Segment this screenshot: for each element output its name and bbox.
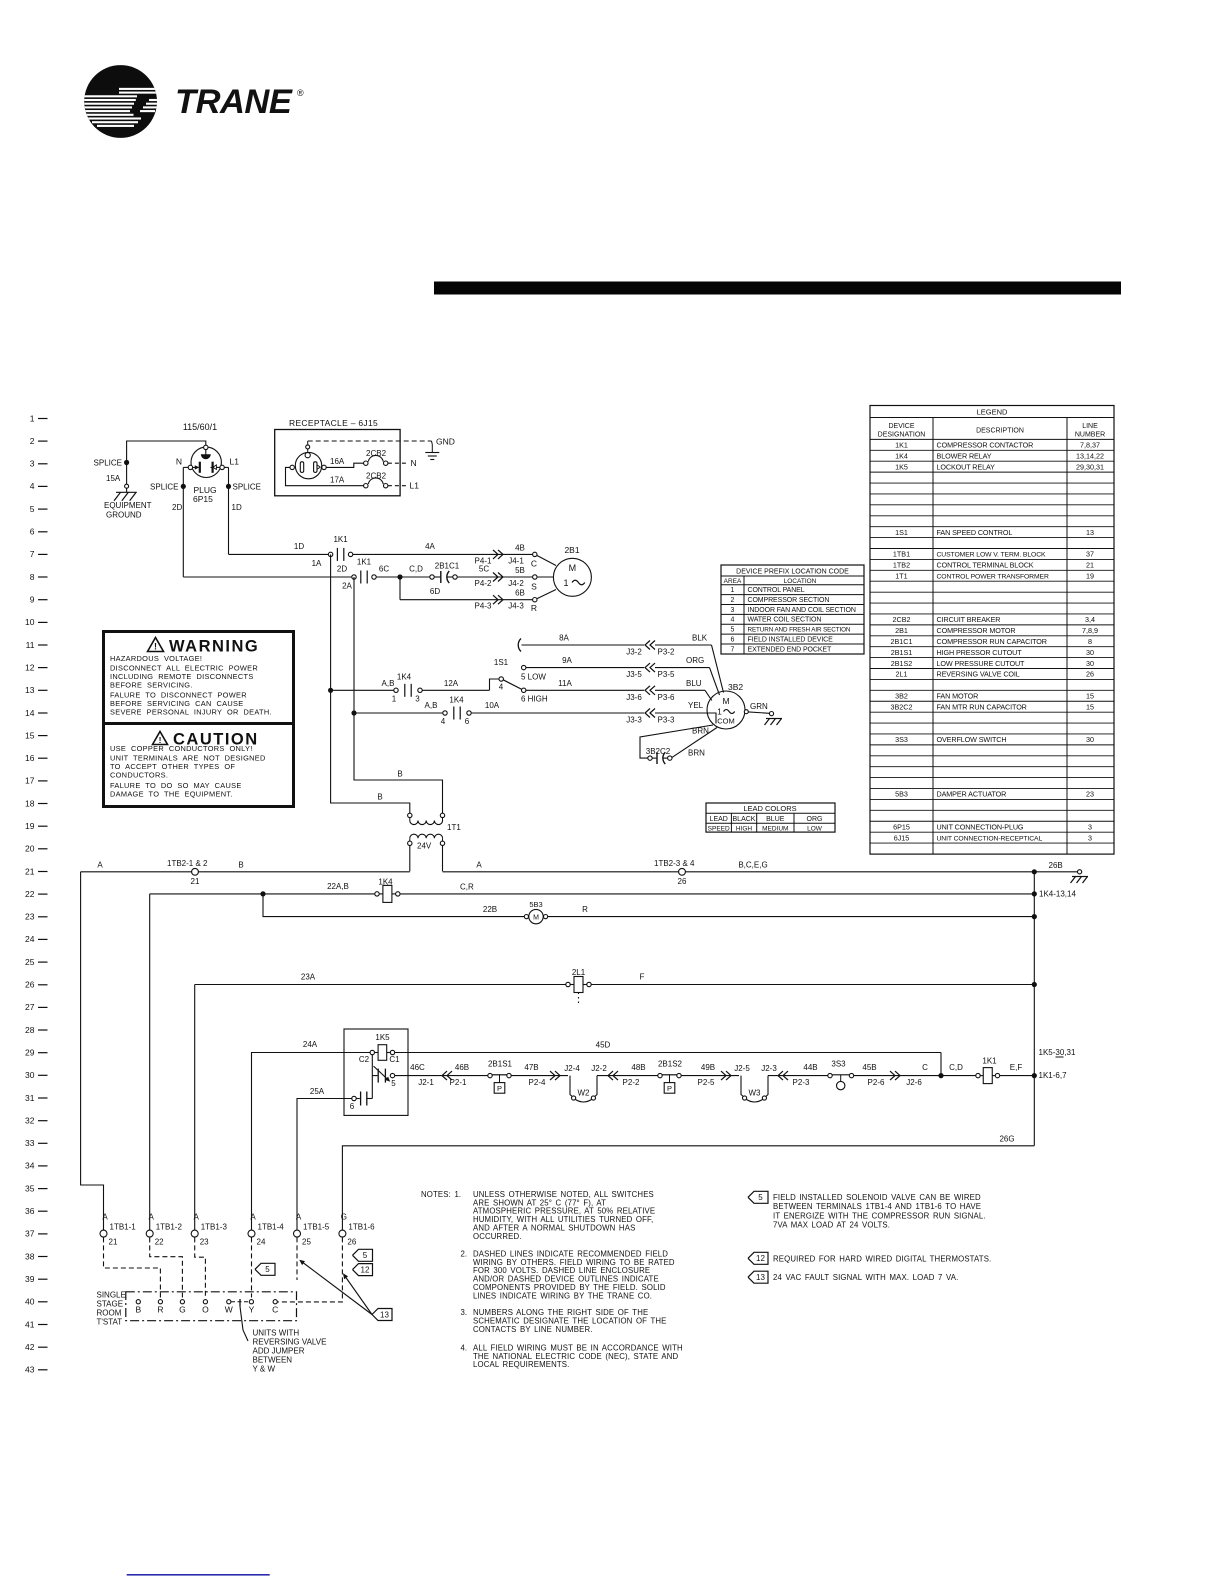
svg-text:44B: 44B: [803, 1063, 817, 1072]
svg-text:J4-1: J4-1: [508, 556, 524, 565]
dashed field wire 26 to C: [278, 1237, 343, 1302]
svg-text:COM: COM: [717, 717, 735, 726]
svg-text:REVERSING VALVE COIL: REVERSING VALVE COIL: [937, 670, 1020, 679]
svg-text:26: 26: [1086, 670, 1094, 679]
svg-text:7,8,9: 7,8,9: [1082, 626, 1098, 635]
wire J2-3 P2-3 44B: [768, 1075, 828, 1077]
thermostat terminal O: [203, 1300, 207, 1304]
relay coil 1K5 C2 C1: [370, 1050, 374, 1054]
svg-text:26: 26: [347, 1238, 356, 1247]
thermostat terminal C: [273, 1300, 277, 1304]
svg-text:SINGLE: SINGLE: [97, 1291, 126, 1300]
svg-text:45B: 45B: [862, 1063, 876, 1072]
wire 26B to chassis ground: [1032, 869, 1037, 874]
jumper W2: [570, 1076, 572, 1097]
svg-text:A,B: A,B: [382, 679, 395, 688]
svg-text:2.: 2.: [461, 1249, 468, 1258]
svg-text:22: 22: [155, 1238, 164, 1247]
svg-text:26: 26: [678, 877, 687, 886]
wire 1TB1-3 drop: [194, 985, 196, 1231]
svg-text:LOW PRESSURE CUTOUT: LOW PRESSURE CUTOUT: [937, 659, 1026, 668]
svg-text:N: N: [176, 457, 182, 467]
wire 49B P2-5 J2-5: [681, 1075, 739, 1077]
right bus vertical: [1033, 872, 1035, 1146]
dashed field wire 25 stub: [296, 1237, 298, 1280]
svg-text:21: 21: [191, 877, 200, 886]
splice L1 wire 1D: [224, 466, 228, 468]
svg-text:P3-3: P3-3: [658, 716, 675, 725]
svg-text:BETWEEN: BETWEEN: [253, 1356, 293, 1365]
svg-text:2L1: 2L1: [572, 968, 586, 977]
svg-text:19: 19: [1086, 572, 1094, 581]
svg-text:LOCATION: LOCATION: [784, 578, 817, 585]
svg-text:24A: 24A: [303, 1040, 318, 1049]
svg-text:5 LOW: 5 LOW: [521, 673, 546, 682]
dashed field wire 21 to R: [104, 1237, 161, 1297]
svg-text:27: 27: [25, 1002, 35, 1012]
svg-text:USE COPPER CONDUCTORS ONLY!: USE COPPER CONDUCTORS ONLY!: [110, 744, 253, 753]
svg-text:TRANE: TRANE: [175, 83, 293, 121]
svg-text:A: A: [250, 1213, 256, 1222]
svg-text:23: 23: [1086, 790, 1094, 799]
svg-text:3B2C2: 3B2C2: [646, 747, 671, 756]
svg-text:C,D: C,D: [409, 565, 423, 574]
svg-text:RETURN AND FRESH AIR SECTION: RETURN AND FRESH AIR SECTION: [748, 627, 851, 634]
svg-text:1K1: 1K1: [357, 558, 372, 567]
svg-text:DESCRIPTION: DESCRIPTION: [976, 428, 1024, 435]
svg-text:BLUE: BLUE: [766, 816, 785, 823]
svg-text:FAN SPEED CONTROL: FAN SPEED CONTROL: [937, 528, 1013, 537]
svg-text:1K1: 1K1: [982, 1057, 997, 1066]
svg-text:13: 13: [380, 1310, 389, 1319]
svg-text:W: W: [225, 1305, 233, 1315]
svg-text:J4-2: J4-2: [508, 579, 524, 588]
wire 47B P2-4 J2-4: [511, 1075, 568, 1077]
svg-text:J2-3: J2-3: [761, 1064, 777, 1073]
svg-text:LOW: LOW: [807, 826, 823, 833]
svg-text:1K1: 1K1: [895, 441, 908, 450]
svg-text:B: B: [238, 860, 243, 869]
svg-text:29: 29: [25, 1048, 35, 1058]
svg-text:19: 19: [25, 821, 35, 831]
svg-text:HIGH: HIGH: [736, 826, 753, 833]
svg-text:12: 12: [361, 1265, 370, 1274]
svg-text:BLACK: BLACK: [733, 816, 756, 823]
svg-text:6C: 6C: [379, 565, 389, 574]
svg-text:LINE: LINE: [1082, 423, 1098, 430]
svg-text:48B: 48B: [631, 1063, 645, 1072]
svg-text:6: 6: [731, 636, 735, 643]
svg-text:1: 1: [30, 413, 35, 423]
svg-text:G: G: [341, 1213, 347, 1222]
svg-text:22: 22: [25, 889, 35, 899]
svg-text:10: 10: [25, 617, 35, 627]
svg-text:C,D: C,D: [949, 1063, 963, 1072]
svg-text:A: A: [149, 1213, 155, 1222]
thermostat terminal B: [136, 1300, 140, 1304]
svg-text:P3-5: P3-5: [658, 670, 675, 679]
svg-text:CONTROL TERMINAL BLOCK: CONTROL TERMINAL BLOCK: [937, 561, 1034, 570]
svg-text:OCCURRED.: OCCURRED.: [473, 1232, 522, 1241]
footer link line: [127, 1574, 270, 1576]
svg-text:COMPRESSOR MOTOR: COMPRESSOR MOTOR: [937, 626, 1016, 635]
svg-text:NUMBER: NUMBER: [1075, 432, 1105, 439]
svg-text:1: 1: [717, 707, 722, 717]
svg-text:CUSTOMER LOW V. TERM. BLOCK: CUSTOMER LOW V. TERM. BLOCK: [937, 552, 1047, 559]
svg-text:SPLICE: SPLICE: [150, 483, 178, 492]
svg-text:45D: 45D: [596, 1041, 611, 1050]
svg-text:AREA: AREA: [724, 578, 742, 585]
svg-text:J3-5: J3-5: [626, 670, 642, 679]
svg-text:LEAD: LEAD: [710, 816, 728, 823]
svg-text:STAGE: STAGE: [97, 1300, 124, 1309]
wire 23A line 26 reversing valve coil 2L1: [195, 984, 566, 986]
svg-text:17: 17: [25, 776, 35, 786]
svg-text:3: 3: [731, 607, 735, 614]
svg-text:1D: 1D: [294, 542, 304, 551]
svg-text:6J15: 6J15: [894, 833, 910, 842]
svg-text:EXTENDED END POCKET: EXTENDED END POCKET: [748, 646, 832, 653]
svg-text:15: 15: [1086, 692, 1094, 701]
plug 6P15: [191, 447, 221, 477]
svg-text:15A: 15A: [106, 474, 121, 483]
svg-text:DESIGNATION: DESIGNATION: [878, 432, 926, 439]
wire 9A connector J3-5 P3-5 ORG: [526, 667, 644, 669]
svg-text:5: 5: [30, 504, 35, 514]
svg-text:24: 24: [25, 934, 35, 944]
svg-text:30: 30: [1086, 735, 1094, 744]
svg-text:1A: 1A: [312, 559, 322, 568]
svg-text:24 VAC FAULT SIGNAL WITH: 24 VAC FAULT SIGNAL WITH MAX. LOAD 7 VA.: [773, 1273, 958, 1282]
svg-text:1D: 1D: [232, 503, 242, 512]
fan motor 3B2: [707, 691, 745, 729]
svg-text:UNITS WITH: UNITS WITH: [253, 1329, 300, 1338]
svg-text:2B1S2: 2B1S2: [658, 1060, 683, 1069]
wire transformer secondary right to line 21: [442, 846, 444, 872]
dashed field wire 22 to G: [150, 1237, 183, 1297]
svg-text:39: 39: [25, 1274, 35, 1284]
jumper W3: [741, 1076, 743, 1097]
svg-text:22B: 22B: [483, 905, 497, 914]
svg-text:30: 30: [1086, 659, 1094, 668]
svg-text:21: 21: [1086, 561, 1094, 570]
svg-text:6 HIGH: 6 HIGH: [521, 695, 548, 704]
svg-text:E,F: E,F: [1010, 1063, 1023, 1072]
svg-text:7VA MAX LOAD AT 24 VOLTS.: 7VA MAX LOAD AT 24 VOLTS.: [773, 1221, 890, 1230]
device prefix location code table: [721, 565, 864, 654]
svg-text:SEVERE PERSONAL INJURY OR DEAT: SEVERE PERSONAL INJURY OR DEATH.: [110, 707, 272, 716]
svg-text:REQUIRED FOR HARD WIRED DI: REQUIRED FOR HARD WIRED DIGITAL THERMOST…: [773, 1254, 991, 1263]
svg-text:LEGEND: LEGEND: [977, 408, 1008, 417]
wire 4A connector P4-1 J4-1 terminal C: [353, 553, 533, 555]
svg-text:MEDIUM: MEDIUM: [762, 826, 788, 833]
svg-text:37: 37: [1086, 550, 1094, 559]
svg-text:SPLICE: SPLICE: [233, 483, 261, 492]
svg-text:P2-2: P2-2: [623, 1078, 640, 1087]
lead colors table: [706, 803, 835, 833]
svg-text:P3-2: P3-2: [658, 648, 675, 657]
GND dashed wire and earth ground: [307, 441, 309, 445]
svg-text:P: P: [497, 1084, 502, 1093]
pennant note 5: [748, 1191, 768, 1203]
svg-text:1K5: 1K5: [895, 462, 908, 471]
svg-text:5B3: 5B3: [529, 900, 542, 909]
svg-text:26B: 26B: [1049, 861, 1063, 870]
svg-text:21: 21: [25, 866, 35, 876]
svg-text:RECEPTACLE – 6J15: RECEPTACLE – 6J15: [289, 418, 378, 428]
svg-text:49B: 49B: [701, 1063, 715, 1072]
pennant note 13: [748, 1271, 768, 1283]
wire 1D line 7: [229, 553, 329, 555]
svg-text:J3-2: J3-2: [626, 648, 642, 657]
svg-text:23: 23: [200, 1238, 209, 1247]
svg-text:CONTROL PANEL: CONTROL PANEL: [748, 587, 805, 594]
svg-text:1TB1-1: 1TB1-1: [110, 1223, 137, 1232]
svg-text:BEFORE SERVICING.: BEFORE SERVICING.: [110, 680, 193, 689]
svg-text:REVERSING VALVE: REVERSING VALVE: [253, 1338, 327, 1347]
svg-text:Y: Y: [249, 1305, 255, 1315]
svg-text:R: R: [157, 1305, 163, 1315]
svg-text:A: A: [102, 1213, 108, 1222]
svg-text:1: 1: [392, 694, 397, 703]
svg-text:34: 34: [25, 1161, 35, 1171]
svg-text:M: M: [569, 563, 577, 573]
svg-text:1S1: 1S1: [494, 658, 509, 667]
pennant 5 at terminal 24: [255, 1263, 275, 1275]
svg-text:8: 8: [1088, 637, 1092, 646]
svg-text:1T1: 1T1: [895, 572, 907, 581]
wire 24A line 29 to 1K5: [252, 1053, 371, 1231]
svg-text:UNIT CONNECTION-PLUG: UNIT CONNECTION-PLUG: [937, 822, 1024, 831]
svg-text:1: 1: [563, 578, 568, 588]
svg-text:WATER COIL SECTION: WATER COIL SECTION: [748, 617, 822, 624]
svg-text:4: 4: [499, 683, 504, 692]
svg-text:P2-3: P2-3: [793, 1078, 810, 1087]
svg-text:6P15: 6P15: [893, 822, 910, 831]
svg-text:4: 4: [731, 617, 735, 624]
wire 26G line 33: [342, 1146, 1034, 1230]
svg-text:43: 43: [25, 1365, 35, 1375]
svg-text:B: B: [377, 793, 382, 802]
svg-text:1TB1-2: 1TB1-2: [156, 1223, 183, 1232]
svg-text:5B3: 5B3: [895, 790, 908, 799]
wire 17A with breaker 2CB2 to L1: [286, 467, 364, 485]
svg-text:15: 15: [25, 730, 35, 740]
svg-text:2CB2: 2CB2: [366, 471, 387, 480]
svg-text:3S3: 3S3: [831, 1060, 846, 1069]
title bar: [434, 282, 1121, 295]
svg-text:25: 25: [25, 957, 35, 967]
thermostat terminal W: [227, 1300, 231, 1304]
svg-text:14: 14: [25, 708, 35, 718]
svg-text:L1: L1: [230, 457, 240, 467]
svg-text:GROUND: GROUND: [106, 511, 142, 520]
svg-text:5: 5: [265, 1265, 270, 1274]
svg-text:6: 6: [30, 527, 35, 537]
svg-text:21: 21: [109, 1238, 118, 1247]
thermostat terminal G: [180, 1300, 184, 1304]
svg-text:16: 16: [25, 753, 35, 763]
wire line 21 drop to 1TB1-1: [81, 872, 104, 1230]
svg-text:L1: L1: [410, 481, 420, 491]
svg-text:2B1C1: 2B1C1: [435, 562, 460, 571]
svg-text:3B2: 3B2: [895, 692, 908, 701]
splice 15A fused lead: [124, 460, 129, 465]
svg-text:B: B: [397, 770, 402, 779]
svg-text:6: 6: [465, 717, 470, 726]
svg-text:J2-4: J2-4: [564, 1064, 580, 1073]
svg-text:2B1C1: 2B1C1: [891, 637, 913, 646]
line number ruler: [25, 413, 47, 1374]
svg-text:42: 42: [25, 1342, 35, 1352]
svg-text:1TB2-1 & 2: 1TB2-1 & 2: [167, 859, 208, 868]
wire J2-2 P2-2 48B: [597, 1075, 658, 1077]
svg-text:1K5-30,31: 1K5-30,31: [1039, 1048, 1076, 1057]
svg-text:33: 33: [25, 1138, 35, 1148]
svg-text:A,B: A,B: [425, 701, 438, 710]
svg-text:COMPRESSOR CONTACTOR: COMPRESSOR CONTACTOR: [937, 441, 1034, 450]
svg-text:6D: 6D: [430, 587, 440, 596]
wire 11A connector J3-6 P3-6 BLU: [526, 689, 644, 691]
svg-text:P2-4: P2-4: [529, 1078, 546, 1087]
svg-text:P4-3: P4-3: [475, 602, 492, 611]
capacitor 3B2C2 with BRN leads: [640, 725, 713, 758]
dashed field wire 23 to O: [195, 1237, 206, 1297]
svg-text:ORG: ORG: [807, 816, 823, 823]
GRN wire and motor ground: [744, 710, 748, 714]
svg-text:1K4: 1K4: [449, 696, 464, 705]
svg-text:3.: 3.: [461, 1308, 468, 1317]
svg-text:9: 9: [30, 595, 35, 605]
svg-text:COMPRESSOR SECTION: COMPRESSOR SECTION: [748, 597, 830, 604]
svg-text:4: 4: [441, 717, 446, 726]
node 6C junction line 8: [376, 576, 430, 578]
svg-text:6: 6: [350, 1102, 355, 1111]
svg-text:2B1S1: 2B1S1: [891, 648, 913, 657]
svg-text:C: C: [922, 1063, 928, 1072]
pennant 13 with leaders: [372, 1309, 392, 1321]
caution box: [104, 724, 294, 807]
svg-text:13: 13: [25, 685, 35, 695]
svg-text:5: 5: [363, 1251, 368, 1260]
svg-text:3: 3: [1088, 833, 1092, 842]
svg-text:37: 37: [25, 1229, 35, 1239]
svg-text:BLK: BLK: [692, 634, 708, 643]
svg-text:5B: 5B: [515, 566, 525, 575]
svg-text:P2-6: P2-6: [868, 1078, 885, 1087]
svg-text:10A: 10A: [485, 701, 500, 710]
svg-text:B,C,E,G: B,C,E,G: [738, 860, 767, 869]
svg-text:3,4: 3,4: [1085, 615, 1095, 624]
svg-text:3B2C2: 3B2C2: [891, 702, 913, 711]
svg-text:ROOM: ROOM: [97, 1309, 122, 1318]
svg-text:M: M: [722, 696, 729, 706]
svg-text:12A: 12A: [444, 679, 459, 688]
svg-text:41: 41: [25, 1319, 35, 1329]
svg-text:C1: C1: [389, 1055, 400, 1064]
svg-text:7: 7: [30, 549, 35, 559]
svg-text:4: 4: [30, 481, 35, 491]
svg-text:1TB1-6: 1TB1-6: [348, 1223, 375, 1232]
svg-text:1TB2: 1TB2: [893, 561, 910, 570]
svg-text:DEVICE: DEVICE: [888, 423, 914, 430]
svg-text:2: 2: [731, 597, 735, 604]
equipment ground: [116, 491, 137, 493]
svg-text:DEVICE PREFIX LOCATION CODE: DEVICE PREFIX LOCATION CODE: [736, 569, 849, 576]
wire line 21 right segment: [443, 871, 1035, 873]
svg-text:P: P: [667, 1084, 672, 1093]
svg-text:38: 38: [25, 1251, 35, 1261]
svg-text:W2: W2: [578, 1089, 591, 1098]
wire line 23 damper motor 5B3: [263, 894, 524, 917]
svg-text:CONTROL POWER TRANSFORMER: CONTROL POWER TRANSFORMER: [937, 574, 1049, 581]
svg-text:W3: W3: [749, 1089, 762, 1098]
svg-text:28: 28: [25, 1025, 35, 1035]
svg-text:COMPRESSOR RUN CAPACITOR: COMPRESSOR RUN CAPACITOR: [937, 637, 1047, 646]
svg-text:26G: 26G: [999, 1134, 1014, 1143]
svg-text:BLU: BLU: [686, 679, 702, 688]
svg-text:5: 5: [731, 627, 735, 634]
thermostat terminal R: [158, 1300, 162, 1304]
svg-text:2CB2: 2CB2: [893, 615, 911, 624]
svg-text:J3-3: J3-3: [626, 716, 642, 725]
svg-text:32: 32: [25, 1116, 35, 1126]
svg-text:1T1: 1T1: [447, 823, 461, 832]
lockout relay 1K5 box: [344, 1029, 408, 1115]
svg-text:1TB1-4: 1TB1-4: [258, 1223, 285, 1232]
svg-text:25A: 25A: [310, 1087, 325, 1096]
svg-text:11: 11: [26, 640, 35, 650]
svg-text:BETWEEN TERMINALS 1TB1-4 AN: BETWEEN TERMINALS 1TB1-4 AND 1TB1-6 TO H…: [773, 1202, 981, 1211]
svg-text:UNIT CONNECTION-RECEPTICAL: UNIT CONNECTION-RECEPTICAL: [937, 835, 1043, 842]
warning box: [104, 632, 294, 724]
pennant note 12: [748, 1252, 768, 1264]
svg-text:SPLICE: SPLICE: [94, 459, 122, 468]
wire 45B P2-6 J2-6 C: [854, 1075, 976, 1077]
svg-text:LOCKOUT RELAY: LOCKOUT RELAY: [937, 462, 996, 471]
svg-text:WARNING: WARNING: [169, 638, 259, 656]
svg-text:1K4: 1K4: [397, 673, 412, 682]
wire 12A line 13 with 1K4 contact: [331, 689, 394, 691]
svg-text:16A: 16A: [330, 457, 345, 466]
svg-text:46B: 46B: [455, 1063, 469, 1072]
svg-text:HAZARDOUS VOLTAGE!: HAZARDOUS VOLTAGE!: [110, 654, 202, 663]
wire transformer secondary left to line 21: [409, 846, 411, 872]
svg-text:31: 31: [25, 1093, 35, 1103]
svg-text:2B1S1: 2B1S1: [488, 1060, 513, 1069]
wire 46C J2-1 P2-1 46B: [395, 1075, 488, 1077]
svg-text:13: 13: [1086, 528, 1094, 537]
svg-text:ADD JUMPER: ADD JUMPER: [253, 1347, 305, 1356]
legend table: [870, 406, 1114, 855]
svg-text:23: 23: [25, 912, 35, 922]
svg-text:6B: 6B: [515, 589, 525, 598]
svg-text:1TB1-3: 1TB1-3: [201, 1223, 228, 1232]
svg-text:3: 3: [1088, 822, 1092, 831]
svg-text:BRN: BRN: [688, 749, 705, 758]
svg-text:2B1: 2B1: [895, 626, 908, 635]
svg-text:YEL: YEL: [688, 701, 704, 710]
svg-text:1K5: 1K5: [375, 1033, 390, 1042]
svg-text:DAMAGE TO THE EQUIPMENT.: DAMAGE TO THE EQUIPMENT.: [110, 789, 233, 798]
svg-text:46C: 46C: [410, 1063, 425, 1072]
svg-text:C,R: C,R: [460, 882, 474, 891]
svg-text:5: 5: [391, 1079, 396, 1088]
wire 5C connector P4-2 J4-2 terminal S: [457, 576, 532, 578]
contact 1K5-6 wire 25A: [297, 1099, 352, 1231]
svg-text:24: 24: [257, 1238, 266, 1247]
svg-text:25: 25: [302, 1238, 311, 1247]
